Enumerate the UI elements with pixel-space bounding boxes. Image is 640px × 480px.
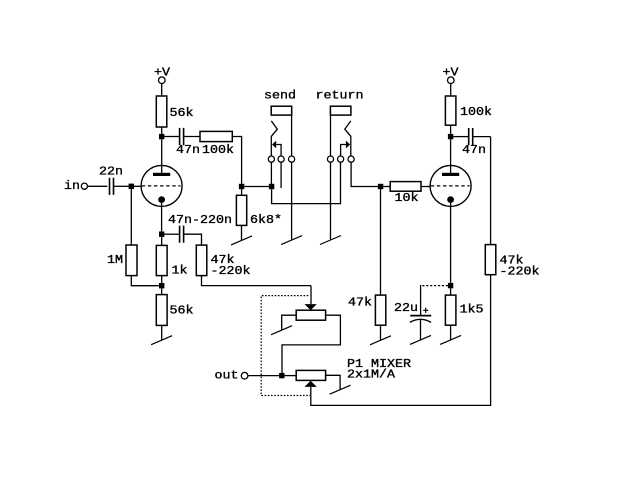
wire 22u bottom lead to ground [420,320,422,340]
node C junction (1M/1k/56k) [159,283,164,288]
terminal send lug 2 [278,156,284,162]
wire node A to C 47n [164,136,179,138]
ground under P1b right [330,385,351,394]
ground under P1a left [271,326,292,335]
wire R 1k5 to ground [450,325,452,340]
wire C 22n to node B [114,185,129,187]
wire send switch arm [276,145,281,156]
terminal in [81,183,87,189]
triode V2 (circle, plate bar, grid dashes, cathode dot) [430,165,471,206]
resistor 100k (plate load V2) [445,96,456,125]
svg-text:10k: 10k [395,191,419,205]
svg-text:56k: 56k [170,303,194,317]
node K1 junction (V1 cathode node) [159,232,164,237]
svg-text:2x1M/A: 2x1M/A [347,368,396,382]
svg-text:47n-220n: 47n-220n [168,213,232,227]
wire R 6k8 to ground [241,225,243,240]
resistor 56k (plate load V1) [156,96,167,127]
potentiometer P1b body [296,370,325,380]
wire +V to R 56k [161,84,163,97]
svg-text:in: in [64,179,80,193]
node D junction (send node) [239,184,244,189]
svg-text:56k: 56k [170,106,194,120]
wire P1b right terminal to ground [326,375,341,389]
wire node K1 to C 47n-220n [164,233,179,235]
svg-text:send: send [264,89,296,103]
svg-text:-220k: -220k [211,264,251,278]
svg-text:6k8*: 6k8* [250,213,282,227]
svg-text:1M: 1M [107,253,123,267]
wire send tip spring contact [271,121,277,156]
wire C 47n right to output column [473,136,491,138]
resistor 6k8 [236,195,246,225]
terminal +V left [159,77,166,84]
triode V1 (circle, plate bar, grid dashes, cathode dot) [141,165,182,206]
ground under 1k5 [440,335,461,344]
wire P1a right terminal to out node [282,315,340,373]
wire R 47k-220k left to P1a wiper column [202,276,312,286]
wire node E to return lug2 (bypass link) [272,162,341,203]
wire R 56k to node A [161,127,163,134]
capacitor 22n (input coupling) [110,178,114,195]
svg-text:1k: 1k [172,264,188,278]
wire to P1a wiper arrow [310,286,312,305]
wire node D to R 6k8 [241,189,243,195]
resistor 1k5 (V2 cathode bias) [445,295,456,325]
svg-text:100k: 100k [202,143,234,157]
svg-text:100k: 100k [460,105,492,119]
wire node F to R 10k [383,186,390,188]
wire in terminal to C 22n [88,185,108,187]
wire R 100k right to node G [450,125,452,134]
arrow send switch contact [272,141,276,149]
wire return sleeve line [330,115,332,156]
wire return switch arm [341,145,346,156]
resistor 1M (grid leak) [126,245,137,276]
arrow return switch contact [346,141,350,149]
terminal send lug 1 [268,156,274,162]
capacitor 47n (V1 plate coupling) [180,128,184,145]
svg-text:1k5: 1k5 [460,302,484,316]
capacitor 22u curved plate [410,319,431,322]
wire node A to V1 plate [161,139,163,173]
wire R 10k to V2 grid [421,186,430,188]
wire node G to V2 plate [450,139,452,173]
wire P1a left terminal to ground [282,315,297,330]
wire node C to R 56k lower [161,288,163,294]
ground under 47k [370,336,391,345]
wire output column down to R 47k-220k right [490,137,492,245]
svg-text:return: return [316,89,364,103]
resistor 100k (series, left) [200,131,232,141]
arrow P1a wiper [305,304,317,310]
wire R 100k to node D [232,137,241,184]
wire P1b wiper to feedback column [311,275,491,406]
svg-text:22u: 22u [394,301,418,315]
ground under send lug3 [281,236,302,245]
terminal out [241,372,248,379]
wire out terminal to node OUT [248,375,279,377]
wire return lug1 to ground [330,162,332,240]
wire send sleeve line [291,115,293,156]
resistor 56k (cathode divider) [156,295,167,326]
wire node H to R 1k5 [450,288,452,295]
svg-text:47k: 47k [348,295,372,309]
resistor 1k (cathode bias) [156,245,167,275]
jack send bushing [271,106,292,115]
node E junction (send tip) [269,184,274,189]
jack return bushing [330,106,351,115]
wire V2 cathode to node H [450,203,452,283]
capacitor 47n (V2 plate coupling) [469,128,473,145]
capacitor 22u polarized plus sign [423,308,428,313]
ground under 22u [410,335,431,344]
terminal return lug 1 [327,156,333,162]
terminal return lug 3 [348,156,354,162]
wire send lug3 to ground [291,162,293,240]
capacitor 47n-220n (cathode bypass) [180,226,184,243]
node H junction (V2 cathode node) [448,283,453,288]
wire 22u top lead [420,285,422,315]
wire V1 cathode to node K1 [161,203,163,232]
wire R 1M to node C [131,276,159,286]
wire return tip spring contact [345,121,351,156]
svg-text:47n: 47n [176,143,200,157]
wire return lug3 to node F [351,162,378,186]
wire node D to node E [244,186,269,188]
wire node G to C 47n right [453,136,468,138]
resistor 47k-220k left [196,245,207,276]
wire R 47k to ground [380,325,382,340]
wire C 47n-220n to R 47k-220k [184,234,202,245]
wire send lug1 to node E [270,162,272,184]
potentiometer P1a body [296,310,325,320]
terminal send lug 3 [289,156,295,162]
resistor 47k-220k right [485,245,496,275]
node A junction (V1 plate node) [159,134,164,139]
ground under 56k lower [151,336,172,345]
capacitor 22u top plate [410,315,431,317]
wire R 1k to node C [161,276,163,283]
svg-text:-220k: -220k [500,264,540,278]
node G junction (V2 plate node) [448,134,453,139]
resistor 10k (grid stopper) [390,182,421,192]
node OUT junction [279,373,284,378]
terminal +V right [448,77,455,84]
wire node OUT to P1b [285,375,297,377]
ground under 6k8 [231,236,252,245]
node B junction (V1 grid node) [129,184,134,189]
wire node B to V1 grid [134,185,141,187]
ground under return lug1 [320,236,341,245]
wire +V to R 100k right [450,84,452,97]
wire node F to R 47k [380,189,382,295]
wire R 56k lower to ground [161,325,163,340]
svg-text:47n: 47n [462,143,486,157]
wire send lug2 stub [280,162,282,188]
terminal return lug 2 [338,156,344,162]
svg-text:22n: 22n [99,164,123,178]
wire node B down to R 1M [130,189,132,245]
arrow P1b wiper [305,381,317,387]
wire 22u bypass dotted link to node H [422,285,448,287]
node F junction (return/grid node) [378,184,383,189]
svg-text:out: out [215,369,239,383]
wire node K1 to R 1k [161,237,163,246]
wire C 47n to R 100k [184,136,200,138]
dotted gang link P1a-P1b [261,296,311,396]
resistor 47k (return load) [375,295,385,325]
